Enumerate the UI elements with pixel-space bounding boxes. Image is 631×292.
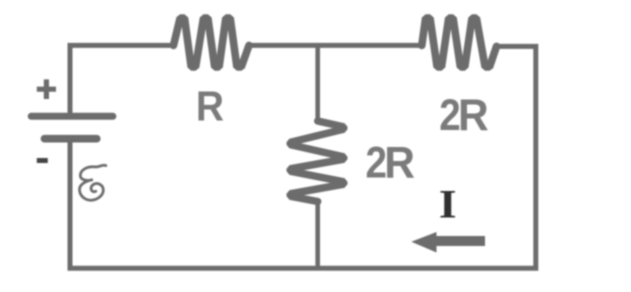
svg-text:R: R <box>196 83 224 130</box>
svg-text:R: R <box>384 138 415 187</box>
svg-text:I: I <box>439 181 457 226</box>
svg-text:R: R <box>458 91 489 140</box>
